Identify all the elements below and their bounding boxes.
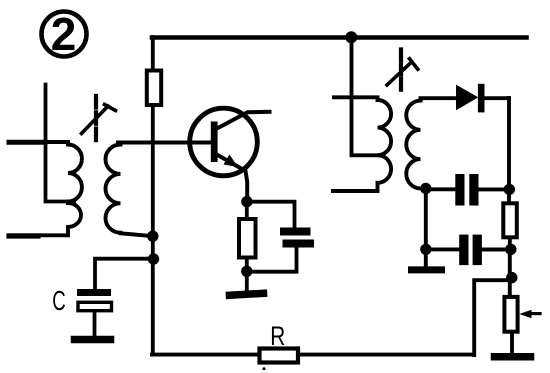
resistor R1 (base bias, vertical) bbox=[147, 71, 161, 106]
top supply rail bbox=[152, 35, 527, 40]
wire: stub overdraw (top-left) bbox=[9, 140, 45, 145]
ground (below emitter resistor) bbox=[230, 293, 264, 295]
tuning arrow (right transformer, dashed core + arrow) bbox=[387, 50, 418, 94]
svg-text:2: 2 bbox=[51, 8, 77, 60]
left transformer primary winding bbox=[9, 142, 82, 235]
wire: secondary top to diode bbox=[421, 98, 455, 100]
capacitor C (fixed plate + trimmer outline plate) bbox=[77, 259, 153, 337]
figure label 2 (circled) bbox=[42, 8, 87, 60]
junction node (pot top) bbox=[506, 272, 517, 283]
diode D1 bbox=[456, 84, 509, 113]
right transformer primary winding bbox=[333, 97, 391, 191]
transistor emitter lead with arrow bbox=[216, 154, 247, 201]
junction node (row1 right) bbox=[504, 184, 515, 195]
junction node (emitter top) bbox=[241, 196, 252, 207]
junction node (emitter bottom) bbox=[241, 266, 252, 277]
wire: left cap column down to ground bbox=[424, 188, 428, 267]
right transformer secondary winding bbox=[406, 101, 425, 189]
antenna lead (vertical) with tap to primary bbox=[46, 85, 75, 202]
capacitor row 1 bbox=[426, 174, 510, 206]
tuning arrow (left transformer, dashed core + arrow) bbox=[82, 96, 116, 143]
resistor R (horizontal, on bottom rail) bbox=[260, 349, 299, 363]
wire: bottom rail up to pot junction bbox=[474, 280, 512, 355]
wire: right column (diode down through resistor) bbox=[509, 98, 512, 354]
transistor collector lead bbox=[216, 112, 270, 129]
arrow into variable resistor bbox=[519, 310, 540, 318]
junction node (cap C branch on feed line) bbox=[148, 253, 159, 264]
emitter resistor (vertical) bbox=[239, 202, 256, 293]
wire: left vertical feed (top rail down to bottom rail) bbox=[151, 37, 155, 353]
svg-text:R: R bbox=[270, 321, 285, 351]
right transformer feed (vertical) with tap bbox=[352, 37, 380, 155]
variable resistor (bottom right, vertical) bbox=[504, 297, 517, 332]
svg-text:C: C bbox=[52, 285, 66, 316]
left transformer secondary winding bbox=[105, 143, 150, 236]
junction node (row2 right) bbox=[505, 244, 516, 255]
junction node (top rail / right feed) bbox=[345, 31, 357, 43]
capacitor row 2 bbox=[426, 235, 511, 266]
ink speck bbox=[263, 367, 266, 370]
junction node (row2 left) bbox=[420, 244, 431, 255]
ground (bottom right) bbox=[495, 353, 531, 361]
resistor (vertical, between cap rows) bbox=[503, 203, 517, 237]
bottom rail bbox=[152, 353, 474, 357]
junction node (secondary bottom / row1 left) bbox=[420, 183, 431, 194]
junction node (secondary bottom on feed line) bbox=[147, 231, 158, 242]
emitter bypass capacitor bbox=[247, 202, 314, 272]
transistor Q1 (NPN, circle) bbox=[190, 108, 258, 176]
wire: stub overdraw (bottom-left) bbox=[9, 233, 38, 238]
ground (left of cap row 2) bbox=[412, 266, 442, 273]
ground (below capacitor C) bbox=[75, 336, 111, 344]
wire: base line bbox=[118, 141, 211, 145]
